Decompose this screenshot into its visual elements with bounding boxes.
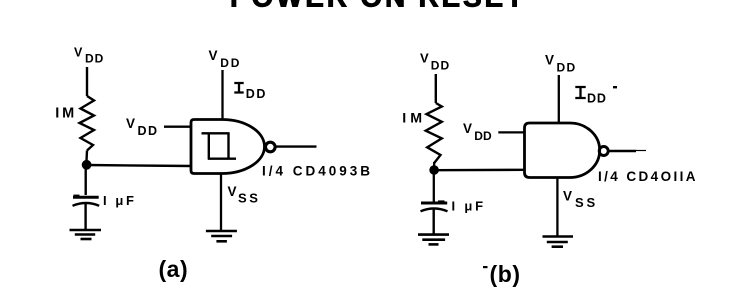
svg-text:(a): (a): [159, 256, 189, 282]
node junction dot (a): [82, 160, 92, 170]
label IDD (b): [575, 87, 607, 106]
svg-text:SS: SS: [575, 195, 598, 210]
svg-text:V: V: [74, 46, 83, 60]
pin VSS (bottom pin of gate b): [556, 178, 558, 236]
svg-text:POWER ON RESET: POWER ON RESET: [230, 0, 526, 13]
svg-text:(b): (b): [490, 261, 521, 287]
svg-text:DD: DD: [474, 129, 492, 143]
svg-text:SS: SS: [238, 191, 261, 206]
svg-text:I/4 CD4OIIA: I/4 CD4OIIA: [598, 169, 698, 184]
svg-text:DD: DD: [138, 124, 159, 138]
capacitor 1uF (a) top plate: [74, 195, 80, 197]
label VDD (top pin, b): [545, 53, 576, 75]
resistor 1M (b): [426, 103, 442, 163]
resistor 1M (a): [80, 96, 95, 151]
wire VDD label to gate top input (b): [498, 131, 525, 133]
wire node to gate input (b): [434, 169, 525, 172]
ground below capacitor (a): [70, 230, 102, 239]
svg-text:DD: DD: [557, 61, 577, 75]
pin VDD supply (top pin of gate b): [558, 75, 560, 123]
svg-text:V: V: [126, 116, 135, 131]
label VDD (top of resistor R, circuit b): [420, 51, 450, 73]
svg-text:DD: DD: [85, 52, 104, 66]
wire node to gate input (a): [86, 165, 191, 166]
wire capacitor to ground (a): [84, 204, 86, 230]
wire node to capacitor (a): [84, 165, 86, 196]
wire VDD to resistor top (a): [86, 67, 88, 96]
wire capacitor to ground (b): [433, 210, 435, 235]
svg-text:IM: IM: [55, 106, 77, 122]
label VDD (gate input, circuit b): [463, 121, 492, 143]
svg-text:IM: IM: [402, 111, 426, 127]
pin VDD supply (top pin of gate a): [221, 70, 223, 119]
svg-text:V: V: [420, 51, 429, 66]
label VDD (top pin, a): [209, 48, 242, 70]
label VDD (gate input, circuit a): [126, 116, 159, 138]
wire gate output (b): [609, 150, 636, 152]
svg-text:DD: DD: [431, 59, 451, 73]
wire gate output (a): [276, 145, 317, 147]
svg-text:I μF: I μF: [103, 193, 137, 208]
svg-text:V: V: [545, 53, 554, 68]
schmitt trigger hysteresis symbol inside gate (a): [202, 133, 237, 160]
svg-text:V: V: [563, 189, 572, 204]
svg-text:V: V: [228, 184, 237, 199]
ground below gate (a): [206, 231, 237, 241]
capacitor 1uF (b) top plate: [438, 200, 445, 202]
wire resistor bottom to node (b): [433, 162, 436, 170]
svg-text:V: V: [209, 48, 218, 63]
svg-text:DD: DD: [246, 87, 267, 101]
gate output bubble (a): [266, 142, 276, 152]
node junction dot (b): [429, 165, 439, 175]
svg-text:DD: DD: [220, 56, 241, 70]
speck near IDD (b): [613, 86, 617, 88]
NAND gate U2 1/4 CD4011A (b) body: [525, 123, 600, 178]
ground below capacitor (b): [418, 235, 449, 245]
svg-text:DD: DD: [587, 92, 607, 106]
pin VSS (bottom pin of gate a): [220, 174, 222, 230]
wire node to capacitor (b): [433, 170, 435, 204]
capacitor 1uF (a) bottom plate: [73, 203, 100, 206]
svg-text:I/4 CD4093B: I/4 CD4093B: [262, 164, 373, 179]
gate output bubble (b): [599, 147, 608, 156]
svg-text:I μF: I μF: [452, 199, 486, 214]
label IDD (a): [234, 83, 267, 101]
NAND schmitt-trigger gate U1 1/4 CD4093B (a) body: [191, 120, 265, 174]
label VSS (b): [563, 189, 598, 211]
label VDD (top of resistor R, circuit a): [74, 46, 104, 66]
capacitor 1uF (b) bottom plate: [421, 209, 448, 212]
wire resistor bottom to node (a): [85, 151, 88, 166]
speck left of (b) label: [483, 266, 488, 268]
wire VDD label to gate top input (a): [164, 126, 191, 128]
wire VDD to resistor top (b): [435, 74, 437, 103]
ground below gate (b): [543, 237, 574, 247]
wire gate output faint tail (b): [636, 150, 646, 152]
label VSS (a): [228, 184, 261, 206]
svg-text:V: V: [463, 121, 472, 136]
